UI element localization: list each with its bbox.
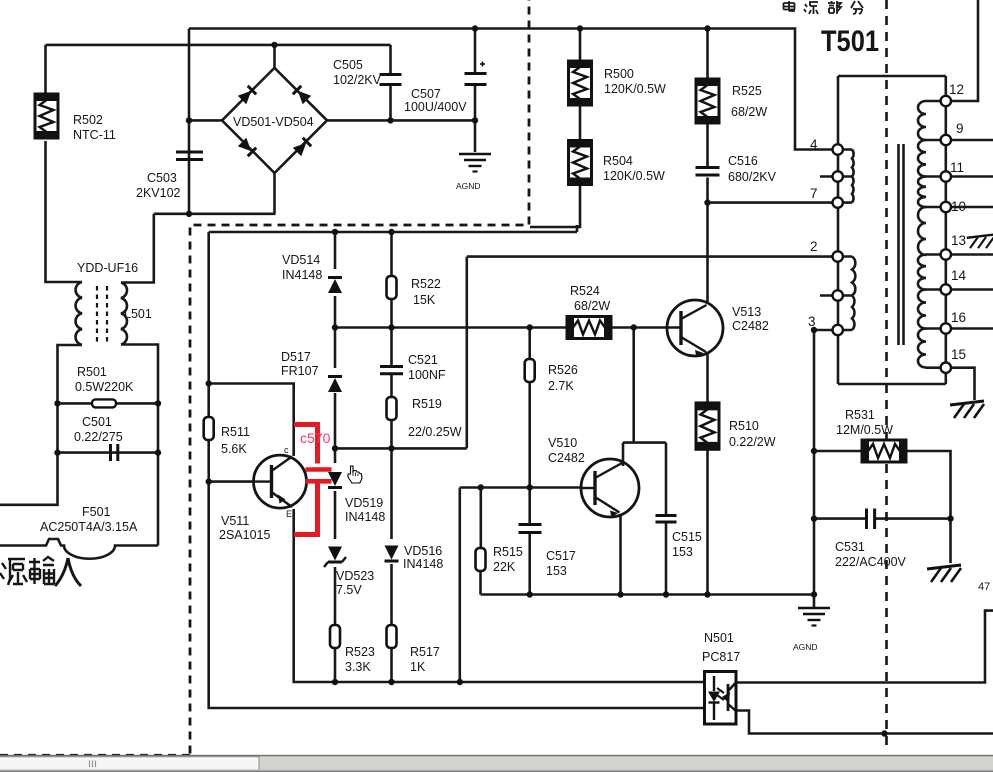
svg-text:14: 14: [951, 268, 967, 283]
svg-text:102/2KV: 102/2KV: [333, 73, 382, 87]
svg-text:R515: R515: [493, 545, 523, 559]
svg-text:2KV102: 2KV102: [136, 186, 181, 200]
svg-text:120K/0.5W: 120K/0.5W: [604, 82, 666, 96]
svg-text:L501: L501: [124, 307, 152, 321]
svg-text:2: 2: [810, 239, 818, 254]
svg-text:YDD-UF16: YDD-UF16: [77, 261, 138, 275]
svg-text:IN4148: IN4148: [403, 557, 443, 571]
svg-text:VD523: VD523: [336, 569, 374, 583]
svg-text:C2482: C2482: [548, 451, 585, 465]
svg-text:IN4148: IN4148: [282, 268, 322, 282]
svg-text:VD516: VD516: [404, 544, 442, 558]
svg-text:0.22/275: 0.22/275: [74, 430, 123, 444]
svg-text:4: 4: [810, 137, 818, 152]
svg-text:C507: C507: [411, 87, 441, 101]
svg-text:R523: R523: [345, 645, 375, 659]
svg-text:C516: C516: [728, 154, 758, 168]
svg-text:AGND: AGND: [456, 181, 481, 191]
svg-text:C517: C517: [546, 549, 576, 563]
svg-text:47: 47: [978, 581, 990, 593]
svg-text:VD514: VD514: [282, 253, 320, 267]
svg-text:11: 11: [950, 160, 964, 175]
svg-text:68/2W: 68/2W: [574, 299, 610, 313]
svg-text:c: c: [284, 445, 289, 455]
svg-text:C503: C503: [147, 171, 177, 185]
svg-text:V513: V513: [732, 305, 761, 319]
svg-text:V510: V510: [548, 436, 577, 450]
svg-text:100NF: 100NF: [408, 368, 446, 382]
svg-text:100U/400V: 100U/400V: [404, 100, 467, 114]
svg-text:C505: C505: [333, 58, 363, 72]
svg-text:V511: V511: [221, 514, 249, 528]
svg-text:3: 3: [808, 314, 816, 329]
svg-text:E: E: [286, 509, 292, 519]
svg-text:1K: 1K: [410, 660, 426, 674]
svg-text:13: 13: [951, 233, 966, 248]
svg-text:R502: R502: [73, 113, 103, 127]
svg-text:68/2W: 68/2W: [731, 105, 767, 119]
svg-text:IN4148: IN4148: [345, 510, 385, 524]
svg-text:VD519: VD519: [345, 496, 383, 510]
svg-text:FR107: FR107: [281, 364, 319, 378]
svg-text:N501: N501: [704, 631, 734, 645]
svg-text:C521: C521: [408, 353, 438, 367]
svg-text:0.22/2W: 0.22/2W: [729, 435, 776, 449]
svg-text:R522: R522: [411, 277, 441, 291]
svg-text:R500: R500: [604, 67, 634, 81]
svg-text:222/AC400V: 222/AC400V: [835, 555, 907, 569]
svg-text:AGND: AGND: [793, 642, 818, 652]
svg-text:12: 12: [949, 82, 964, 97]
svg-text:R511: R511: [221, 425, 250, 439]
svg-text:3.3K: 3.3K: [345, 660, 371, 674]
svg-text:5.6K: 5.6K: [221, 442, 247, 456]
svg-text:153: 153: [546, 564, 567, 578]
svg-text:R525: R525: [732, 84, 762, 98]
svg-text:0.5W220K: 0.5W220K: [75, 380, 134, 394]
svg-text:680/2KV: 680/2KV: [728, 170, 777, 184]
svg-text:R519: R519: [412, 397, 442, 411]
svg-text:T501: T501: [821, 25, 879, 58]
svg-text:R510: R510: [729, 419, 759, 433]
svg-text:153: 153: [672, 545, 693, 559]
svg-text:R526: R526: [548, 363, 578, 377]
svg-text:R501: R501: [77, 365, 107, 379]
svg-text:15: 15: [951, 347, 966, 362]
svg-text:10: 10: [951, 199, 966, 214]
svg-text:7: 7: [810, 186, 818, 201]
svg-text:7.5V: 7.5V: [336, 583, 362, 597]
svg-text:C2482: C2482: [732, 319, 769, 333]
svg-text:C515: C515: [672, 530, 702, 544]
svg-text:R524: R524: [570, 284, 600, 298]
svg-text:22K: 22K: [493, 560, 516, 574]
svg-text:C501: C501: [82, 415, 112, 429]
svg-text:VD501-VD504: VD501-VD504: [233, 115, 314, 129]
svg-text:12M/0.5W: 12M/0.5W: [836, 423, 893, 437]
svg-text:D517: D517: [281, 350, 311, 364]
svg-text:120K/0.5W: 120K/0.5W: [603, 169, 665, 183]
svg-text:16: 16: [951, 310, 966, 325]
svg-text:R517: R517: [410, 645, 440, 659]
svg-text:NTC-11: NTC-11: [73, 128, 116, 142]
svg-text:2.7K: 2.7K: [548, 379, 574, 393]
svg-text:c570: c570: [300, 430, 331, 446]
svg-text:2SA1015: 2SA1015: [219, 528, 270, 542]
svg-text:F501: F501: [82, 505, 111, 519]
svg-text:9: 9: [956, 121, 964, 136]
svg-text:AC250T4A/3.15A: AC250T4A/3.15A: [40, 520, 138, 534]
svg-text:R531: R531: [845, 408, 875, 422]
svg-text:C531: C531: [835, 540, 865, 554]
svg-text:R504: R504: [603, 154, 633, 168]
svg-text:22/0.25W: 22/0.25W: [408, 425, 462, 439]
svg-text:15K: 15K: [413, 293, 436, 307]
svg-text:PC817: PC817: [702, 650, 740, 664]
